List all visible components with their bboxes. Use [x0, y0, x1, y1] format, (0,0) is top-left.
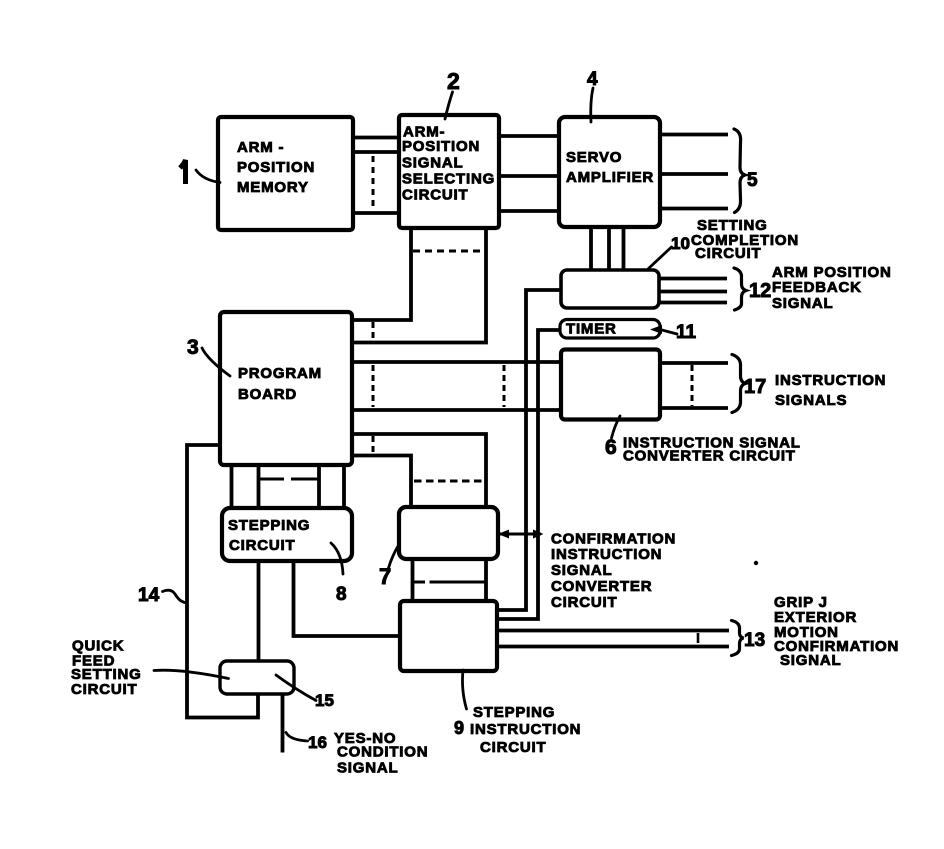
svg-text:12: 12 [749, 280, 771, 302]
svg-text:17: 17 [744, 376, 766, 398]
svg-text:SIGNAL: SIGNAL [780, 652, 841, 669]
svg-text:INSTRUCTION: INSTRUCTION [551, 546, 662, 563]
svg-text:CIRCUIT: CIRCUIT [229, 537, 295, 554]
svg-text:ARM -: ARM - [237, 139, 284, 156]
svg-text:7: 7 [379, 564, 391, 589]
svg-text:2: 2 [447, 68, 460, 94]
svg-text:SIGNAL: SIGNAL [402, 155, 463, 172]
svg-text:CONVERTER CIRCUIT: CONVERTER CIRCUIT [623, 448, 796, 465]
svg-text:PROGRAM: PROGRAM [238, 365, 322, 382]
svg-text:CONDITION: CONDITION [337, 744, 428, 761]
svg-text:CIRCUIT: CIRCUIT [695, 245, 761, 262]
svg-text:MEMORY: MEMORY [237, 179, 309, 196]
svg-text:SIGNALS: SIGNALS [775, 392, 847, 409]
svg-text:BOARD: BOARD [238, 386, 297, 403]
svg-text:SIGNAL: SIGNAL [772, 295, 833, 312]
svg-text:16: 16 [308, 733, 327, 752]
svg-text:13: 13 [744, 630, 765, 651]
svg-text:9: 9 [454, 718, 464, 738]
svg-text:CIRCUIT: CIRCUIT [480, 739, 546, 756]
svg-text:15: 15 [315, 691, 334, 710]
svg-text:SERVO: SERVO [566, 149, 622, 166]
svg-text:6: 6 [605, 436, 617, 459]
svg-text:11: 11 [676, 322, 697, 343]
svg-text:CIRCUIT: CIRCUIT [71, 681, 137, 698]
svg-text:5: 5 [747, 170, 758, 191]
svg-text:CONFIRMATION: CONFIRMATION [551, 531, 676, 548]
svg-text:10: 10 [671, 234, 690, 253]
svg-text:8: 8 [336, 584, 347, 605]
svg-text:STEPPING: STEPPING [473, 704, 555, 721]
svg-text:4: 4 [587, 69, 598, 90]
svg-text:SIGNAL: SIGNAL [551, 562, 612, 579]
svg-text:CIRCUIT: CIRCUIT [551, 594, 617, 611]
svg-text:FEEDBACK: FEEDBACK [772, 279, 862, 296]
svg-text:CIRCUIT: CIRCUIT [402, 187, 468, 204]
svg-text:POSITION: POSITION [237, 159, 315, 176]
svg-text:STEPPING: STEPPING [228, 517, 310, 534]
svg-text:3: 3 [187, 336, 199, 359]
svg-text:SELECTING: SELECTING [402, 171, 495, 188]
svg-text:CONVERTER: CONVERTER [551, 578, 652, 595]
svg-text:AMPLIFIER: AMPLIFIER [566, 169, 654, 186]
svg-text:POSITION: POSITION [402, 138, 480, 155]
svg-text:TIMER: TIMER [566, 321, 617, 338]
svg-text:SIGNAL: SIGNAL [337, 760, 398, 777]
svg-text:INSTRUCTION: INSTRUCTION [470, 721, 581, 738]
svg-text:INSTRUCTION: INSTRUCTION [775, 372, 886, 389]
svg-text:14: 14 [138, 585, 160, 606]
